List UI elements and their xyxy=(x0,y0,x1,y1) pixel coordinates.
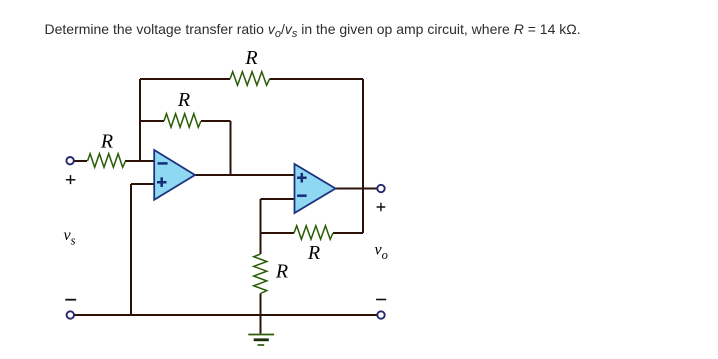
input terminal (+) node xyxy=(66,157,73,164)
resistor R (input, left) xyxy=(88,154,126,168)
resistor R (U1 feedback) xyxy=(164,114,201,128)
wire resistor R5 bottom lead xyxy=(260,294,262,316)
svg-text:R: R xyxy=(177,89,190,111)
problem statement text xyxy=(45,21,581,37)
wire top feedback right segment xyxy=(270,78,364,80)
wire mid feedback left segment xyxy=(140,120,164,122)
plus sign at output terminal xyxy=(377,203,386,212)
resistor R (U2 feedback) xyxy=(294,226,333,240)
wire mid feedback vertical drop xyxy=(230,121,232,175)
wire op-amp U2 output to terminal xyxy=(336,188,377,190)
wire mid feedback right segment xyxy=(201,120,231,122)
wire feedback bottom left segment xyxy=(261,232,295,234)
wire noninverting input to bottom rail xyxy=(130,184,132,315)
resistor R (vertical to ground) xyxy=(254,254,267,294)
resistor R (top feedback) xyxy=(230,72,270,86)
svg-text:R: R xyxy=(307,242,320,264)
input terminal (-) node xyxy=(67,311,74,318)
svg-text:vo: vo xyxy=(375,242,388,263)
wire op-amp U2 inverting input xyxy=(261,198,295,200)
wire node to resistor R5 top lead xyxy=(260,233,262,254)
wire bottom rail xyxy=(74,314,377,316)
minus sign at lower input terminal xyxy=(65,299,76,301)
op-amp U2 xyxy=(295,164,336,213)
wire left feedback vertical xyxy=(139,79,141,161)
output terminal (-) node xyxy=(377,311,384,318)
wire feedback bottom right segment xyxy=(333,232,363,234)
svg-text:R: R xyxy=(244,47,257,69)
wire right vertical rail xyxy=(362,79,364,233)
output terminal (+) node xyxy=(377,185,384,192)
wire op-amp U1 output to U2 noninverting input xyxy=(195,174,295,176)
plus sign at input terminal xyxy=(66,175,76,184)
wire op-amp U1 noninverting input xyxy=(131,183,154,185)
svg-text:vs: vs xyxy=(64,227,76,248)
op-amp U1 xyxy=(154,150,195,200)
svg-text:R: R xyxy=(275,261,288,283)
minus sign at lower output terminal xyxy=(376,299,386,301)
wire ground stub xyxy=(260,315,262,334)
wire top feedback left segment xyxy=(140,78,230,80)
wire input to op-amp U1 inverting input xyxy=(74,160,154,162)
ground xyxy=(248,335,274,346)
wire inverting node vertical xyxy=(260,199,262,233)
svg-text:R: R xyxy=(100,130,113,152)
